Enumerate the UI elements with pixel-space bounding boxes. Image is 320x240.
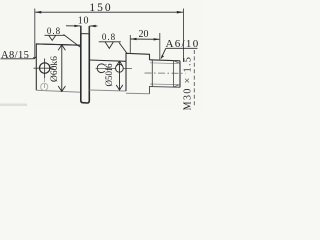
dim 150 line: [35, 11, 184, 13]
thread minor lines: [150, 62, 178, 65]
svg-text:0.8: 0.8: [102, 32, 116, 42]
dim 150 ext left: [34, 9, 36, 58]
dim phi60k6 line: [61, 45, 63, 92]
centerline middle segment: [96, 68, 116, 70]
dim 150 left arrow: [35, 11, 42, 14]
dim 20 line: [130, 38, 160, 40]
dim 10 line right w/ arrow: [90, 25, 98, 27]
mid section: [126, 53, 150, 91]
far-side hole faint: [41, 83, 48, 90]
scan smudge bottom-left: [0, 104, 27, 107]
centerline through flange hole: [34, 67, 54, 69]
phi60k6 bottom open arrow: [58, 86, 65, 91]
svg-text:10: 10: [78, 16, 90, 27]
phi50f6 top open arrow: [116, 61, 123, 66]
radial hole circle: [40, 63, 50, 73]
roughness #2 triangle: [105, 42, 114, 49]
svg-text:150: 150: [89, 2, 112, 14]
cylinder phi60 outline: [36, 44, 81, 90]
label A6/10 underline: [166, 47, 198, 49]
roughness #1 triangle: [49, 35, 56, 40]
dim 150 right arrow: [177, 11, 184, 14]
svg-text:M30 × 1.5: M30 × 1.5: [182, 56, 193, 110]
dim 10 line left w/ arrow: [66, 25, 81, 27]
thread chamfer line: [173, 61, 175, 88]
chamfer diagonals: [174, 61, 181, 64]
roughness #1 leader tail: [64, 35, 81, 48]
vertical dashed border line right: [193, 50, 195, 107]
svg-text:Ø50f6: Ø50f6: [104, 63, 114, 86]
label A8/15 underline: [1, 58, 34, 60]
roughness #1 bar: [45, 34, 65, 36]
collar top edge: [81, 33, 90, 35]
shaft phi50 bottom edge: [89, 90, 126, 91]
small circle on dim line: [116, 64, 124, 72]
phi50f6 bottom open arrow: [116, 85, 123, 90]
dim 150 ext right: [183, 9, 185, 63]
svg-text:20: 20: [139, 29, 149, 40]
svg-text:Ø60k6: Ø60k6: [50, 56, 60, 82]
centerline right segment: [145, 72, 186, 74]
label A8/15 arrow: [34, 57, 37, 59]
dim 20 ext lines: [129, 35, 131, 53]
C arc on centerline: [97, 64, 105, 73]
label A6/10 leader: [161, 48, 166, 58]
roughness #2 bar: [99, 41, 121, 43]
dim 10 ext lines: [80, 26, 82, 34]
step line phi50 to thread: [151, 60, 153, 87]
svg-text:0.8: 0.8: [47, 26, 61, 36]
phi60k6 top open arrow: [58, 45, 65, 51]
dim phi50f6 line: [119, 61, 121, 90]
thread section major lines: [150, 60, 181, 61]
thread end face: [179, 61, 181, 88]
roughness #2 leader tail: [119, 43, 127, 54]
centerline vertical of hole: [44, 59, 46, 79]
shaft phi50 top edge: [89, 60, 126, 61]
collar: [81, 26, 90, 103]
